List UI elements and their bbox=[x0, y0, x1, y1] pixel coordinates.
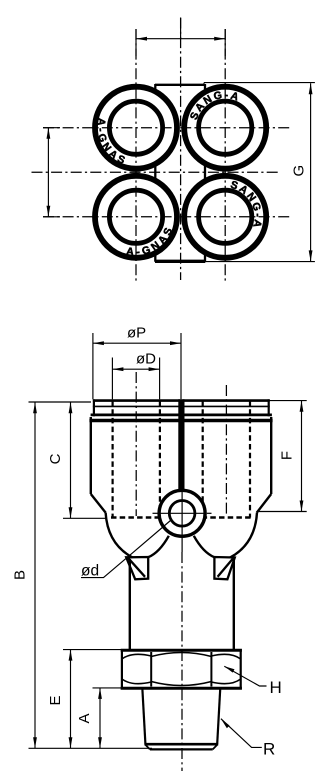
cap left outer edge bbox=[93, 399, 95, 416]
leader H bbox=[224, 666, 266, 686]
dimension oD bbox=[112, 358, 159, 400]
dimension E bbox=[69, 650, 73, 749]
hex chamfer arc top right bbox=[211, 654, 240, 659]
port circle vertical centerline bbox=[181, 488, 183, 552]
SANG-A text BL bbox=[126, 220, 177, 258]
solid ext segments near top dim bbox=[180, 18, 182, 39]
cap left top line bbox=[93, 399, 180, 402]
svg-text:F: F bbox=[279, 451, 296, 460]
svg-text:ød: ød bbox=[81, 563, 99, 580]
hex chamfer arc bottom right bbox=[211, 679, 240, 684]
svg-text:B: B bbox=[12, 570, 29, 580]
hidden bore line left-inner bbox=[159, 401, 161, 518]
extension line C bottom bbox=[63, 517, 106, 519]
svg-text:E: E bbox=[47, 695, 64, 705]
svg-text:øP: øP bbox=[127, 325, 146, 342]
dimension F bbox=[300, 401, 304, 512]
wire boss top edge bbox=[155, 84, 204, 86]
centerline right port bbox=[225, 385, 227, 516]
cap base flange line left bbox=[91, 413, 180, 416]
extension line F bottom bbox=[259, 511, 307, 513]
hidden bore bottom right bbox=[202, 516, 251, 519]
cap base flange line right bbox=[183, 413, 272, 416]
main centerline lower view bbox=[181, 552, 183, 771]
collar TR outer ring bbox=[184, 87, 266, 169]
svg-text:A: A bbox=[76, 713, 93, 723]
wire boss left edge bbox=[154, 84, 156, 262]
port circle horizontal centerline bbox=[160, 512, 205, 514]
collar TL outer ring bbox=[95, 87, 177, 169]
leader od bbox=[81, 521, 171, 578]
stem left edge bbox=[129, 559, 131, 651]
hex chamfer arc bottom left bbox=[122, 679, 151, 684]
thread tip chamfer right bbox=[213, 744, 218, 749]
hex right edge bbox=[240, 649, 242, 690]
hidden bore line left-outer bbox=[111, 401, 113, 518]
hidden bore line right-outer bbox=[249, 401, 251, 518]
svg-text:G: G bbox=[291, 165, 308, 177]
thread bottom line bbox=[144, 743, 218, 746]
svg-text:øD: øD bbox=[136, 351, 156, 368]
extension line bottom (B E A) bbox=[29, 747, 153, 749]
collar BR outer ring bbox=[184, 176, 266, 258]
wire boss right edge bbox=[204, 84, 206, 262]
dimension A bbox=[98, 688, 102, 748]
dimension oP bbox=[93, 333, 181, 399]
collar TL inner ring bbox=[109, 101, 162, 154]
collar TR inner ring bbox=[199, 101, 252, 154]
bell left inner skirt bbox=[148, 536, 169, 557]
dimension G bbox=[204, 83, 315, 262]
cap center gap (merged double edge) bbox=[178, 399, 184, 489]
collar BR inner ring bbox=[199, 190, 252, 243]
body right chamfer bbox=[257, 494, 271, 513]
body boss square behind collars bbox=[155, 84, 205, 262]
stem right edge bbox=[233, 559, 235, 651]
foot right bbox=[214, 557, 234, 579]
bell right inner skirt bbox=[194, 536, 215, 557]
centerline horizontal middle bbox=[32, 171, 279, 173]
collar BL inner ring bbox=[109, 190, 162, 243]
foot left bbox=[126, 557, 148, 579]
port circle od inner bbox=[169, 501, 195, 527]
hex face line right bbox=[210, 652, 212, 687]
bell right outer skirt bbox=[230, 513, 257, 558]
body left chamfer bbox=[91, 494, 106, 513]
hex top edge bbox=[121, 649, 242, 652]
hex left edge bbox=[121, 649, 123, 690]
hex bottom edge bbox=[121, 687, 242, 690]
svg-text:H: H bbox=[270, 678, 282, 697]
dimension C bbox=[69, 402, 73, 518]
body left edge bbox=[90, 417, 92, 494]
extension line A top bbox=[93, 687, 143, 689]
hex chamfer arc top middle bbox=[151, 653, 211, 657]
body top edge bbox=[89, 419, 272, 422]
hidden bore line right-inner bbox=[202, 401, 204, 518]
dimension line left (center spacing) bbox=[47, 128, 51, 217]
svg-text:R: R bbox=[263, 740, 275, 759]
leader R bbox=[221, 719, 262, 748]
thread right edge bbox=[217, 689, 220, 744]
body right edge bbox=[270, 417, 272, 494]
cap right outer edge bbox=[268, 399, 270, 416]
SANG-A text TR bbox=[188, 89, 242, 122]
extension line F top bbox=[270, 400, 307, 402]
centerline vertical middle bbox=[180, 18, 182, 281]
cap right top line bbox=[183, 399, 270, 402]
dimension line top (center spacing) bbox=[136, 37, 225, 41]
port circle od outer bbox=[159, 490, 205, 536]
cap right second line bbox=[183, 405, 270, 407]
hex chamfer arc bottom middle bbox=[151, 682, 211, 686]
wire boss bottom edge bbox=[155, 260, 205, 263]
hidden bore bottom left bbox=[111, 516, 161, 519]
hex chamfer arc top left bbox=[122, 654, 151, 659]
hex face line left bbox=[150, 652, 152, 687]
thread left edge bbox=[142, 689, 145, 744]
extension line top left (B C) bbox=[29, 401, 92, 403]
centerline row bottom bbox=[43, 216, 291, 218]
centerline left port bbox=[135, 372, 137, 516]
collar BL outer ring bbox=[95, 176, 177, 258]
centerline col left bbox=[135, 29, 137, 283]
svg-text:C: C bbox=[47, 453, 64, 464]
SANG-A text TL bbox=[94, 117, 132, 168]
dimension B bbox=[33, 402, 37, 748]
cap left second line bbox=[93, 405, 180, 407]
thread tip line bbox=[150, 748, 213, 750]
bell left outer skirt bbox=[106, 513, 133, 558]
centerline row top bbox=[43, 127, 291, 129]
extension line E top bbox=[63, 649, 121, 651]
SANG-A text BR bbox=[229, 179, 264, 231]
thread tip chamfer left bbox=[145, 744, 150, 749]
centerline col right bbox=[224, 29, 226, 283]
